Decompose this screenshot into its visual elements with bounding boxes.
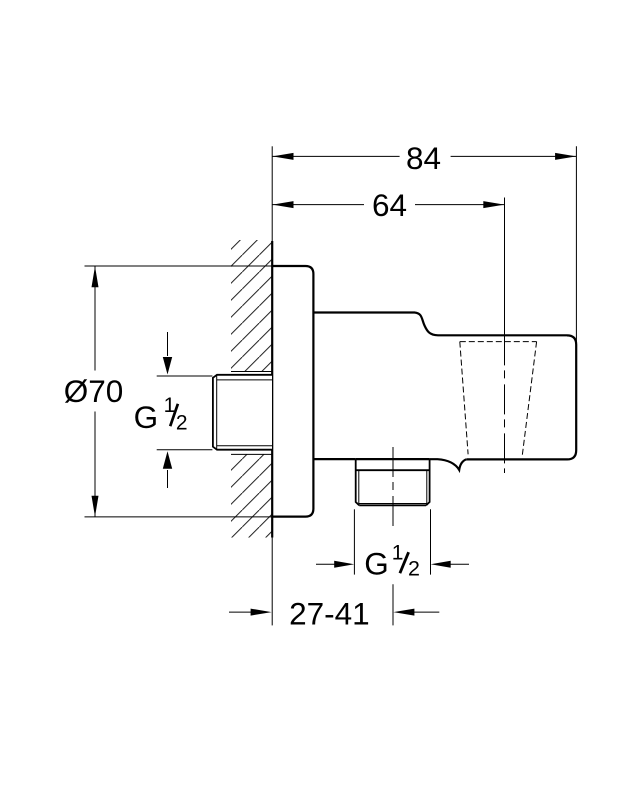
body bottom edge left of outlet: [313, 458, 355, 460]
dimension 27-41 right arrow: [393, 609, 414, 616]
holder cone centerline: [504, 335, 506, 473]
svg-text:84: 84: [406, 140, 441, 176]
holder cone hidden right edge: [522, 342, 536, 456]
left G1/2 up arrow: [163, 451, 172, 469]
bottom G1/2 left arrow: [316, 563, 335, 565]
holder block right side: [466, 335, 576, 459]
inlet fitting G1/2 outline: [213, 375, 272, 450]
body top edge with step: [313, 313, 567, 336]
extension line top of Ø70 (flange top): [85, 265, 273, 267]
left G1/2 down arrow: [167, 332, 169, 356]
wall hatching upper band: [231, 240, 272, 372]
outlet centerline: [392, 447, 394, 528]
dimension 64 right arrowhead: [483, 201, 504, 208]
dimension 64 left arrowhead: [273, 201, 294, 208]
holder cone hidden top edge: [460, 341, 537, 343]
left G1/2 leader bottom: [157, 449, 213, 451]
wall hatching lower band: [231, 454, 272, 537]
outlet thread root bottom: [359, 503, 427, 505]
extension line bottom of Ø70 (flange bottom): [85, 516, 273, 518]
label 84: [400, 145, 451, 169]
bottom G1/2 right arrow: [431, 561, 451, 568]
dimension 84 line: [272, 155, 576, 157]
body bottom edge over outlet: [356, 458, 430, 460]
holder cone hidden left edge: [460, 342, 468, 455]
inlet fitting tick bottom: [231, 453, 272, 455]
flange (escutcheon): [272, 266, 313, 517]
inlet fitting thread root top: [217, 379, 272, 381]
Ø70 bottom arrowhead: [92, 496, 99, 517]
extension line of 64 (holder cone axis): [504, 198, 506, 336]
Ø70 top arrowhead: [92, 266, 99, 287]
svg-text:G: G: [364, 545, 389, 581]
inlet fitting tick top: [231, 371, 272, 373]
dimension 27-41 left arrow: [229, 611, 252, 613]
outlet fitting bottom edge: [359, 504, 426, 506]
svg-text:27-41: 27-41: [289, 596, 370, 632]
dimension 84 right arrowhead: [555, 153, 576, 160]
extension line right of 84 (holder outer face): [575, 146, 577, 344]
outlet fitting collar line: [356, 469, 430, 471]
outlet thread root left: [358, 470, 360, 503]
svg-text:G: G: [134, 399, 159, 435]
inlet fitting thread root bottom: [217, 445, 272, 447]
bottom G1/2 extension right: [430, 509, 432, 574]
drip cusp under holder: [430, 459, 467, 470]
svg-text:64: 64: [372, 187, 407, 223]
outlet fitting left edge: [356, 459, 360, 505]
outlet centerline extension below label: [392, 584, 394, 625]
dimension Ø70 line: [94, 266, 96, 517]
svg-text:2: 2: [408, 556, 420, 580]
outlet thread root right: [426, 470, 428, 503]
dimension 84 left arrowhead: [273, 153, 294, 160]
svg-text:Ø70: Ø70: [64, 373, 124, 409]
inlet fitting chamfer line: [216, 375, 218, 450]
wall extension line top (84/64 datum): [271, 146, 273, 241]
wall extension line bottom (27-41 datum): [271, 538, 273, 626]
left G1/2 leader top: [157, 375, 213, 377]
label 64: [364, 193, 415, 217]
wall face line (thick section edge): [271, 241, 273, 538]
dimension 64 line: [272, 204, 504, 206]
svg-text:1: 1: [392, 541, 404, 564]
svg-text:2: 2: [176, 411, 188, 434]
outlet fitting right edge: [426, 459, 430, 505]
label Ø70: [62, 371, 126, 412]
bottom G1/2 extension left: [353, 509, 355, 574]
